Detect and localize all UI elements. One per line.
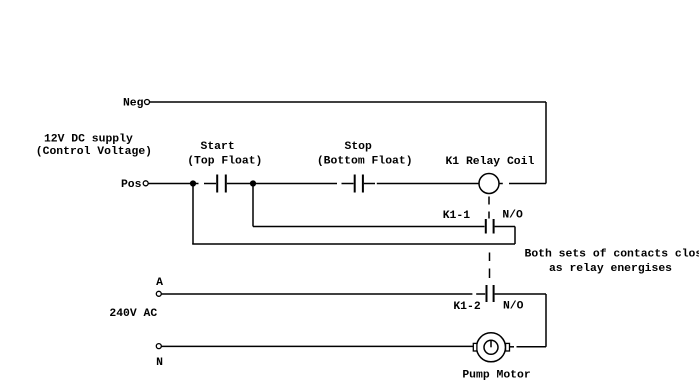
contact Stop (bottom float, N/O) <box>355 175 363 193</box>
wire latch branch right riser <box>252 184 254 227</box>
wire dashed link K1-1 to K1-2 <box>489 253 491 279</box>
svg-text:12V DC supply: 12V DC supply <box>44 133 133 145</box>
node Pos terminal <box>143 181 148 186</box>
wire K1-1 out <box>495 226 515 228</box>
wire motor feed right <box>517 346 547 348</box>
svg-text:240V AC: 240V AC <box>109 308 157 320</box>
wire latch row to K1-1 <box>253 226 485 228</box>
svg-text:Neg: Neg <box>123 97 144 109</box>
node junction dot A1 <box>190 180 196 186</box>
wire Pos rail segment 6 <box>377 183 479 185</box>
wire N rail <box>162 345 474 347</box>
wire K1-2 out <box>495 293 546 295</box>
wire A rail segment 1 <box>162 293 473 295</box>
wire dashed link coil to K1-1 <box>488 197 490 219</box>
svg-text:K1-1: K1-1 <box>443 210 471 222</box>
wire latch return row <box>192 243 515 245</box>
svg-text:K1-2: K1-2 <box>453 301 481 313</box>
node junction dot A2 <box>250 180 256 186</box>
svg-text:Start: Start <box>201 141 235 153</box>
svg-text:(Bottom Float): (Bottom Float) <box>317 156 413 168</box>
svg-text:(Top Float): (Top Float) <box>187 156 262 168</box>
svg-text:Both sets of contacts close: Both sets of contacts close <box>525 249 699 261</box>
relay coil K1 <box>479 174 499 194</box>
node Neg terminal <box>145 100 150 105</box>
node A terminal <box>156 291 161 296</box>
wire latch branch left riser <box>192 184 194 245</box>
wire right riser top <box>545 102 547 184</box>
svg-text:N/O: N/O <box>503 301 524 313</box>
wire latch return riser <box>514 227 516 245</box>
motor M1 left terminal <box>473 343 477 351</box>
motor M1 right terminal <box>506 343 510 351</box>
svg-text:A: A <box>156 277 163 289</box>
wire Neg rail <box>150 101 546 103</box>
wire Pos rail segment 4 <box>342 183 354 185</box>
svg-text:as relay energises: as relay energises <box>549 263 672 275</box>
wire Pos rail segment 5 <box>364 183 375 185</box>
svg-text:N/O: N/O <box>502 209 523 221</box>
wire motor right stub <box>510 346 515 348</box>
wire Pos rail segment 1 <box>148 183 198 185</box>
wire coil output stub <box>499 183 503 185</box>
svg-text:N: N <box>156 357 163 369</box>
wire Pos rail segment 2 <box>204 183 216 185</box>
contact Start (top float, N/O) <box>217 175 226 193</box>
svg-text:Pos: Pos <box>121 179 142 191</box>
svg-text:Stop: Stop <box>345 141 373 153</box>
contact K1-2 (N/O) <box>487 285 494 302</box>
svg-text:K1 Relay Coil: K1 Relay Coil <box>445 156 534 168</box>
svg-text:(Control Voltage): (Control Voltage) <box>36 146 152 158</box>
wire Pos rail segment 3 <box>227 183 337 185</box>
motor M1 inner rotor <box>484 340 498 354</box>
motor M1 pump motor body <box>477 333 506 362</box>
node N terminal <box>156 344 161 349</box>
wire right riser bottom <box>545 294 547 347</box>
wire coil to right riser <box>509 183 546 185</box>
svg-text:Pump Motor: Pump Motor <box>462 369 531 381</box>
wire A rail segment 2 <box>476 293 485 295</box>
motor M1 rotor needle <box>490 340 492 347</box>
contact K1-1 (N/O) <box>486 219 494 234</box>
